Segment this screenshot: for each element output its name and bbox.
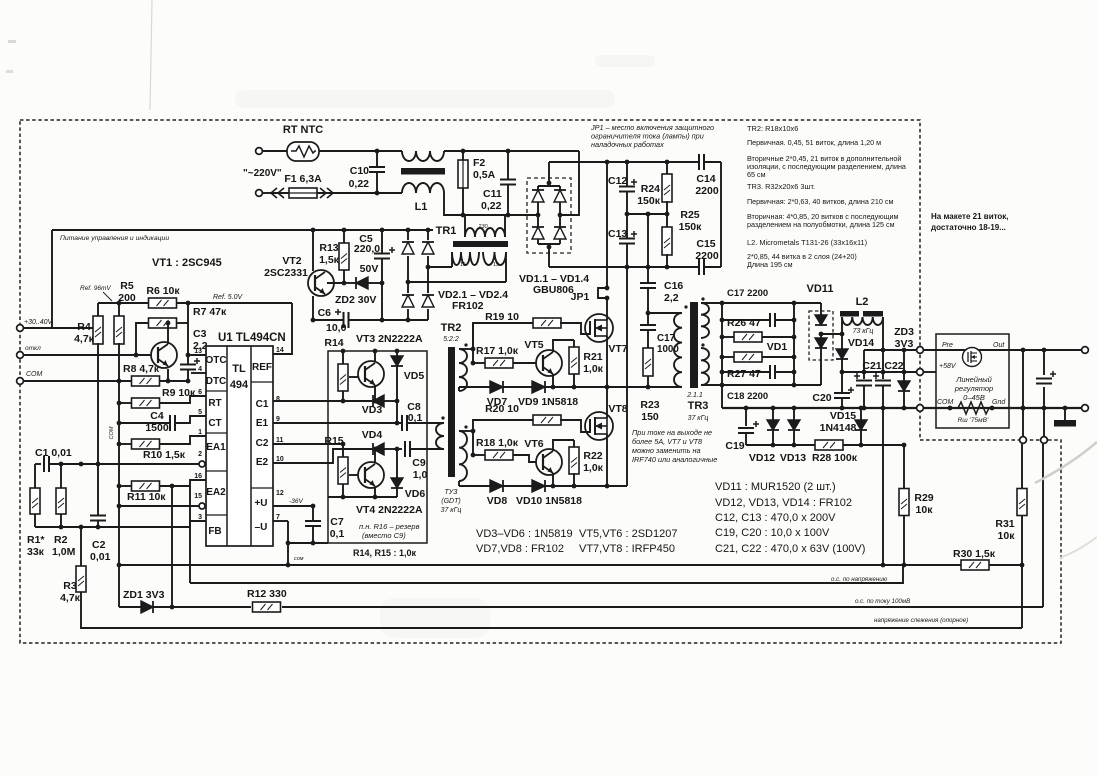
svg-text:CT: CT [208, 418, 221, 429]
svg-text:Ref. 5.0V: Ref. 5.0V [213, 294, 244, 301]
resistor R30 1.5k [961, 560, 989, 570]
bridge diode VD2.2 [420, 240, 436, 256]
diode VD12 [772, 408, 774, 420]
wire -U to driver box bottom [288, 542, 328, 544]
svg-text:REF: REF [252, 362, 272, 373]
resistor R3 4.7k [80, 527, 82, 566]
regulator common rail [923, 407, 1082, 409]
svg-text:15: 15 [493, 262, 499, 268]
transformer TR3 core [690, 302, 698, 388]
voltage feedback line [119, 564, 961, 566]
regulator shunt [954, 402, 992, 414]
svg-text:R18 1,0к: R18 1,0к [476, 437, 519, 449]
svg-text:VT7,VT8 : IRFP450: VT7,VT8 : IRFP450 [579, 543, 675, 555]
svg-text:На макете 21 виток,: На макете 21 виток, [931, 212, 1009, 221]
transformer TR3 secondary lower [701, 348, 709, 385]
capacitor C2 0.01 [97, 464, 99, 515]
wire TR2 top to R19 [459, 348, 473, 350]
wire R20 to VT8 gate [560, 420, 590, 432]
wire VT4 emitter [374, 487, 376, 497]
wire VT6 emitter [552, 473, 554, 486]
svg-text:C22: C22 [884, 360, 903, 372]
resistor R1* 33k [34, 464, 36, 488]
svg-text:TR2: TR2 [441, 322, 462, 334]
svg-text:C21: C21 [862, 360, 881, 372]
svg-text:C15: C15 [696, 238, 715, 250]
svg-text:откл: откл [25, 345, 41, 352]
svg-text:TL: TL [232, 363, 246, 375]
svg-text:C19: C19 [725, 440, 744, 452]
bridge diode VD1.4 [554, 227, 566, 239]
voltage fb tap [882, 408, 884, 565]
zener VD5 [396, 351, 398, 356]
svg-text:4,7к: 4,7к [60, 592, 81, 604]
svg-text:VD14: VD14 [848, 337, 874, 349]
svg-text:50V: 50V [360, 263, 379, 275]
svg-text:Ref. 96mV: Ref. 96mV [80, 285, 111, 292]
svg-text:VT1 : 2SC945: VT1 : 2SC945 [152, 257, 222, 269]
svg-text:1,0M: 1,0M [52, 546, 76, 558]
lower snubber return line [746, 444, 816, 446]
wire pin15 [118, 505, 199, 507]
capacitor C5 220u 50V [381, 230, 383, 253]
svg-text:16: 16 [194, 473, 202, 480]
terminal +30..40V [17, 325, 24, 332]
driver stage box [328, 351, 427, 543]
svg-text:2: 2 [198, 451, 202, 458]
svg-text:+58V: +58V [939, 363, 957, 370]
wire VT3 emitter [374, 385, 376, 401]
capacitor C22 470u [882, 350, 884, 379]
wire R14 to VT3 base [349, 376, 358, 378]
current feedback line [153, 606, 251, 608]
regulator box [936, 334, 1009, 428]
wire VT5 emitter [552, 374, 554, 387]
zener VD6 [396, 449, 398, 478]
svg-text:разделением на полуобмотки, дл: разделением на полуобмотки, длина 125 см [747, 220, 895, 229]
rail 464 dots [59, 462, 64, 467]
capacitor C12 470u [626, 162, 628, 186]
output capacitor [1043, 350, 1045, 375]
resistor R8 4.7k [132, 376, 160, 386]
rectifier VD11 dashed box [809, 311, 833, 360]
terminal otkl [17, 352, 24, 359]
fuse F1 6.3A [289, 188, 317, 198]
transistor VT4 2N2222A [358, 462, 384, 488]
wire VT8 source to lower rail [606, 434, 608, 486]
wire TR1 sec left to VD2 [428, 266, 452, 268]
svg-text:1,0: 1,0 [413, 469, 428, 481]
svg-text:4: 4 [198, 366, 202, 373]
transistor VT2 2SC2331 [308, 270, 334, 296]
diode VD13 [793, 408, 795, 420]
wire sense tap2 [1043, 408, 1045, 437]
svg-text:C10: C10 [350, 165, 369, 177]
svg-text:2,2: 2,2 [664, 292, 679, 304]
svg-text:VD10 1N5818: VD10 1N5818 [516, 495, 582, 507]
svg-text:2200: 2200 [695, 185, 719, 197]
svg-text:Длина 195 см: Длина 195 см [747, 260, 793, 269]
wire C16 node to TR3 primary top [648, 312, 682, 314]
winding sense dots TR3 [684, 305, 687, 308]
diode VD15 1N4148 [860, 408, 862, 420]
svg-text:5:2:2: 5:2:2 [443, 336, 459, 343]
svg-text:OTC: OTC [205, 355, 226, 366]
svg-text:65 см: 65 см [747, 170, 766, 179]
svg-text:Out: Out [993, 342, 1005, 349]
resistor R21 1.0k [573, 340, 575, 347]
mid output rail [842, 371, 917, 373]
svg-text:п.н. R16 – резерв: п.н. R16 – резерв [359, 522, 420, 531]
svg-text:VD8: VD8 [487, 495, 508, 507]
svg-text:1,0к: 1,0к [583, 363, 604, 375]
svg-text:R7 47к: R7 47к [193, 306, 227, 318]
svg-text:VT8: VT8 [608, 403, 627, 415]
svg-text:VT2: VT2 [282, 255, 301, 267]
wire L1 top to AC jog [444, 150, 579, 152]
svg-text:R21: R21 [583, 351, 602, 363]
capacitor C9 1.0 [397, 448, 402, 450]
svg-text:37 кГц: 37 кГц [441, 507, 462, 514]
diode VD4 [373, 443, 384, 455]
svg-text:о.с. по току 100мВ: о.с. по току 100мВ [855, 598, 910, 605]
wire pin13 [188, 354, 206, 356]
svg-text:1,0к: 1,0к [583, 462, 604, 474]
svg-text:E1: E1 [256, 418, 269, 429]
svg-text:L1: L1 [415, 201, 428, 213]
wire pin4 [191, 372, 206, 374]
svg-text:5: 5 [198, 409, 202, 416]
svg-text:R3: R3 [63, 580, 77, 592]
svg-text:0,22: 0,22 [349, 178, 370, 190]
AC jog to bridge right [559, 151, 579, 215]
bridge diode VD2.4 [420, 293, 436, 309]
svg-text:U1 TL494CN: U1 TL494CN [218, 332, 286, 344]
resistor R9 10k [119, 402, 132, 404]
diode VD7 [490, 381, 503, 393]
svg-text:VT5: VT5 [524, 339, 543, 351]
svg-text:1,5к: 1,5к [319, 254, 340, 266]
svg-text:FR102: FR102 [452, 300, 484, 312]
capacitor C4 1500 [119, 422, 170, 424]
svg-text:достаточно 18-19...: достаточно 18-19... [931, 223, 1006, 232]
connector chevrons left of F1 [271, 188, 277, 198]
svg-text:Rш ’75мВ’: Rш ’75мВ’ [958, 417, 989, 424]
wire VT4 collector [374, 449, 376, 463]
svg-text:C1 0,01: C1 0,01 [35, 447, 72, 459]
MOSFET VT7 [585, 314, 613, 342]
svg-text:VD6: VD6 [405, 488, 426, 500]
capacitor C17 1000 [646, 311, 651, 316]
svg-text:R19 10: R19 10 [485, 311, 519, 323]
svg-text:VD3–VD6 : 1N5819: VD3–VD6 : 1N5819 [476, 528, 573, 540]
svg-text:R8 4,7к: R8 4,7к [123, 363, 160, 375]
capacitor C3 2.2 [187, 303, 189, 364]
svg-text:C2: C2 [92, 539, 106, 551]
capacitor C19 10u [745, 408, 747, 426]
svg-text:GBU806: GBU806 [533, 284, 574, 296]
svg-text:F2: F2 [473, 157, 485, 169]
svg-text:7: 7 [276, 514, 280, 521]
transformer TR3 primary [674, 313, 682, 387]
resistor R29 10k [899, 489, 909, 516]
svg-text:регулятор: регулятор [954, 384, 993, 393]
svg-text:–U: –U [255, 522, 268, 533]
resistor R4 4.7k [97, 303, 99, 317]
resistor R24 150k [666, 162, 668, 175]
secondary top rail [701, 302, 821, 304]
svg-text:C13: C13 [608, 228, 627, 240]
wire pin7 -U [273, 520, 288, 522]
svg-text:IRF740 или аналогичные: IRF740 или аналогичные [632, 455, 717, 464]
svg-text:E2: E2 [256, 457, 269, 468]
svg-text:R24: R24 [641, 183, 660, 195]
snubber left vertical [721, 303, 723, 408]
svg-text:R5: R5 [120, 280, 134, 292]
svg-text:COM: COM [26, 371, 43, 378]
svg-text:EA1: EA1 [206, 442, 226, 453]
lower rail with VD8 VD10 [458, 481, 460, 486]
svg-text:C12: C12 [608, 175, 627, 187]
svg-text:более 5А, VT7 и VT8: более 5А, VT7 и VT8 [632, 437, 703, 446]
resistor R23 150 [643, 348, 653, 376]
capacitor C6 10u [343, 312, 345, 328]
svg-text:VD12: VD12 [749, 452, 775, 464]
svg-text:C4: C4 [150, 410, 164, 422]
svg-text:C17 2200: C17 2200 [727, 288, 768, 299]
transistor VT5 2SD1207 [536, 350, 562, 376]
svg-text:VD11: VD11 [807, 283, 834, 295]
svg-text:JP1: JP1 [571, 291, 590, 303]
diode VD14 [841, 334, 843, 349]
svg-text:R1*: R1* [27, 534, 45, 546]
svg-text:C7: C7 [330, 516, 344, 528]
svg-text:VD1: VD1 [767, 341, 788, 353]
svg-text:VT5,VT6 : 2SD1207: VT5,VT6 : 2SD1207 [579, 528, 677, 540]
svg-text:R17 1,0к: R17 1,0к [476, 345, 519, 357]
zener ZD3 3V3 [903, 350, 905, 381]
zener ZD2 30V [344, 282, 356, 284]
svg-text:230: 230 [477, 224, 488, 230]
svg-text:R14, R15 : 1,0к: R14, R15 : 1,0к [353, 548, 417, 558]
wire L1 bottom to rail 215 [444, 193, 538, 215]
aux DC- rail [313, 319, 343, 321]
svg-text:о.с. по напряжению: о.с. по напряжению [831, 576, 888, 583]
transformer TR1 core [453, 241, 508, 247]
transformer TR1 primary [465, 228, 505, 237]
svg-text:VD11 : MUR1520 (2 шт.): VD11 : MUR1520 (2 шт.) [715, 481, 836, 493]
svg-text:VT3 2N2222A: VT3 2N2222A [356, 333, 423, 345]
regulator +58V input [923, 371, 936, 373]
regulator pass MOSFET [963, 348, 982, 367]
output terminal positive [1082, 347, 1089, 354]
svg-text:33к: 33к [27, 546, 45, 558]
svg-text:15: 15 [194, 493, 202, 500]
diode VD10 [532, 480, 545, 492]
connector chevrons right of F1 [320, 188, 326, 198]
ground symbol [1064, 408, 1066, 420]
wire VT5 collector to R21 [553, 340, 574, 352]
svg-text:VT7: VT7 [608, 343, 627, 355]
svg-text:12: 12 [276, 490, 284, 497]
terminal AC neutral input [256, 190, 263, 197]
svg-text:3: 3 [198, 514, 202, 521]
svg-text:Линейный: Линейный [955, 375, 992, 384]
resistor R11 10k [119, 485, 132, 487]
svg-text:R13: R13 [319, 242, 338, 254]
resistor R19 10 [533, 318, 561, 328]
svg-text:изоляции, с последующим раздел: изоляции, с последующим разделением, дли… [747, 162, 906, 171]
diode VD11a [820, 303, 822, 315]
svg-text:можно заменить на: можно заменить на [632, 446, 701, 455]
svg-text:-36V: -36V [289, 498, 303, 505]
svg-text:1N4148: 1N4148 [820, 422, 857, 434]
svg-text:+30..40V: +30..40V [24, 319, 54, 326]
capacitor C13 470u [626, 214, 628, 238]
output +58 rail [864, 349, 917, 351]
resistor R7 47k [149, 318, 177, 328]
pin2 terminal [199, 461, 205, 467]
svg-text:C17: C17 [657, 333, 676, 344]
inductor L2 [842, 317, 883, 325]
capacitor C20 10u [841, 372, 843, 392]
IC U1 TL494CN outline [206, 346, 273, 546]
svg-text:R23: R23 [640, 399, 659, 411]
svg-text:C19, C20 : 10,0 x 100V: C19, C20 : 10,0 x 100V [715, 527, 830, 539]
snubber right vertical [793, 303, 795, 385]
svg-text:VT6: VT6 [524, 438, 543, 450]
svg-text:10: 10 [276, 456, 284, 463]
DC- return vertical [626, 267, 628, 486]
svg-text:200: 200 [118, 292, 136, 304]
svg-text:0,22: 0,22 [481, 200, 502, 212]
svg-text:R15: R15 [324, 435, 343, 447]
wire VD11 to VD14 [821, 333, 842, 335]
svg-text:VD12, VD13, VD14 : FR102: VD12, VD13, VD14 : FR102 [715, 497, 852, 509]
resistor R10 1.5k [119, 443, 132, 445]
wire R11 node to fb line [171, 486, 173, 607]
wire sense taps [1022, 350, 1024, 437]
transistor VT1 2SC945 [151, 342, 177, 368]
diode VD11b [819, 332, 824, 337]
svg-text:R25: R25 [680, 209, 699, 221]
MOSFET VT8 [585, 412, 613, 440]
svg-text:C14: C14 [696, 173, 715, 185]
svg-text:"~220V": "~220V" [243, 168, 282, 179]
wire TR2 lower to R20 [459, 430, 473, 432]
diode VD3 [343, 400, 372, 402]
capacitor C1 0.01 [35, 463, 41, 465]
capacitor C15 2200 [698, 259, 700, 275]
transformer TR2 primary [436, 423, 444, 449]
svg-text:R20 10: R20 10 [485, 403, 519, 415]
rail C12-C13 midpoint [627, 213, 667, 215]
svg-text:R29: R29 [914, 492, 933, 504]
svg-text:COM: COM [937, 399, 954, 406]
reference rail 5V [98, 302, 149, 304]
scan artifact smudges [235, 90, 615, 108]
svg-text:R9 10к: R9 10к [162, 387, 196, 399]
wire JP1 to VT7 drain [606, 298, 608, 320]
output common rail [722, 407, 917, 409]
resistor R12 330 [253, 602, 281, 612]
svg-text:COM: COM [109, 426, 115, 439]
resistor R25 150k [666, 214, 668, 228]
resistor R27 47 [722, 356, 734, 358]
svg-text:0–45В: 0–45В [963, 393, 985, 402]
jumper JP1 [605, 286, 610, 291]
svg-text:37 кГц: 37 кГц [688, 415, 709, 422]
svg-text:C6: C6 [318, 307, 332, 319]
svg-text:C3: C3 [193, 328, 207, 340]
svg-text:C20: C20 [812, 392, 831, 404]
transistor VT3 2N2222A [358, 361, 384, 387]
resistor R28 100k [815, 440, 843, 450]
bridge rectifier VD1.1-VD1.4 dashed box [527, 178, 571, 253]
COM vertical bus [118, 381, 120, 607]
svg-text:6: 6 [198, 389, 202, 396]
wire R19 to VT7 gate [560, 323, 590, 334]
output terminal negative [1082, 405, 1089, 412]
svg-text:VD9 1N5818: VD9 1N5818 [518, 396, 578, 408]
scan artifact bottom right curve [1035, 442, 1097, 483]
capacitor C16 2.2 [647, 267, 649, 283]
resistor R31 10k [1021, 444, 1023, 489]
terminal AC line input [256, 148, 263, 155]
terminal COM [17, 378, 24, 385]
svg-text:R26 47: R26 47 [727, 317, 761, 329]
bridge VD2 legs [407, 230, 409, 320]
svg-text:13: 13 [194, 348, 202, 355]
resistor R5 200 [118, 303, 120, 317]
svg-text:R11 10к: R11 10к [127, 491, 166, 503]
svg-text:1: 1 [198, 429, 202, 436]
svg-text:R31: R31 [995, 518, 1014, 530]
transformer TR2 core [448, 347, 455, 477]
svg-text:VD13: VD13 [780, 452, 806, 464]
svg-text:R30 1,5к: R30 1,5к [953, 548, 996, 560]
resistor R17 1.0k [473, 362, 485, 364]
wire pin12 +U [273, 505, 313, 507]
IC right column dividers [251, 381, 273, 383]
svg-text:8: 8 [276, 396, 280, 403]
svg-text:DTC: DTC [206, 376, 227, 387]
wire VT8 drain [606, 387, 608, 418]
bridge diode VD1.2 [554, 190, 566, 202]
svg-text:C12, C13 : 470,0 x 200V: C12, C13 : 470,0 x 200V [715, 512, 836, 524]
wire F1 to C10 bottom [340, 192, 402, 194]
svg-text:10к: 10к [998, 530, 1016, 542]
svg-text:RT: RT [208, 398, 221, 409]
resistor R20 10 [533, 415, 561, 425]
wire pin11 to R15 [273, 443, 343, 445]
FB rail [35, 526, 190, 528]
svg-text:C1: C1 [256, 399, 269, 410]
svg-text:R27 47: R27 47 [727, 368, 761, 380]
transformer TR1 secondary [452, 252, 479, 265]
DC+ bus [549, 161, 698, 163]
svg-text:VD3: VD3 [362, 404, 383, 416]
svg-text:2200: 2200 [695, 250, 719, 262]
capacitor C21 470u [863, 350, 865, 379]
bridge VD1 top node and legs [548, 162, 550, 186]
zener ZD1 3V3 [119, 606, 141, 608]
svg-text:TR1: TR1 [436, 225, 457, 237]
svg-text:ZD3: ZD3 [894, 326, 914, 338]
svg-text:Первичная: 2*0,63, 40 витков,: Первичная: 2*0,63, 40 витков, длина 210 … [747, 197, 893, 206]
svg-text:FB: FB [208, 526, 221, 537]
diode VD9 [532, 381, 545, 393]
